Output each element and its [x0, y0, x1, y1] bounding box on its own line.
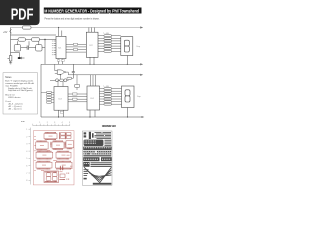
- DISP1 digit 8: [124, 40, 129, 46]
- resistor R1 top rail: [23, 26, 32, 29]
- IC1 top pins: [59, 28, 62, 37]
- layout left edge marks: [34, 136, 72, 180]
- pcb corner text marks: [84, 169, 112, 184]
- layout side dots: [59, 166, 65, 180]
- wire osc row: [11, 39, 57, 41]
- svg-text:7 x 680: 7 x 680: [103, 86, 109, 88]
- svg-text:3: 3: [54, 122, 55, 124]
- pcb pads white: [84, 140, 110, 164]
- op IC4 decoder2: [87, 86, 100, 110]
- DISP1 bottom wire: [126, 56, 128, 65]
- svg-text:2: 2: [47, 122, 48, 124]
- IC4 right pins: [100, 89, 105, 105]
- svg-text:Press the button and a two dig: Press the button and a two digit random …: [45, 17, 100, 20]
- gate output wire: [66, 72, 69, 75]
- IC1 bottom labels: [57, 60, 60, 62]
- layout side box R: [60, 174, 65, 178]
- rail mid2 arrow: [140, 74, 143, 76]
- IC1 right pin wires to IC2: [66, 44, 86, 52]
- pcb band mid: [83, 147, 111, 151]
- IC3 bottom pins: [59, 110, 64, 117]
- IC2 bottom pins: [90, 57, 94, 64]
- layout IC2: [36, 141, 48, 151]
- component box IC osc: [36, 45, 42, 51]
- wire rail2 to R6: [59, 75, 61, 79]
- gate bubble: [64, 71, 65, 72]
- pcb trace row a: [95, 131, 102, 134]
- node DISP2 gnd: [127, 116, 128, 117]
- ruler horizontal: [33, 124, 70, 126]
- layout display module: [44, 171, 59, 183]
- ladder2 wires: [112, 89, 122, 105]
- node junction A: [44, 39, 45, 40]
- rail mid 2: [68, 74, 140, 76]
- PDF badge: [0, 0, 40, 25]
- svg-text:7 x 680: 7 x 680: [103, 33, 109, 35]
- svg-text:4: 4: [26, 151, 27, 153]
- resistor R3: [32, 38, 40, 41]
- op IC1 counter: [56, 36, 66, 58]
- wire vert cap: [18, 41, 39, 45]
- capacitor C2: [27, 46, 29, 50]
- Q wires to IC3: [58, 80, 63, 86]
- layout IC1: [44, 132, 57, 140]
- svg-text:5: 5: [26, 158, 27, 160]
- pcb stripes row f: [83, 162, 89, 167]
- layout ref labels: [38, 148, 70, 173]
- display DISP1: [121, 37, 133, 56]
- transistor Q1: [56, 79, 59, 82]
- IC1 pin labels: [52, 41, 53, 55]
- layout box D: [66, 141, 74, 149]
- svg-text:A3 - (Qwire): A3 - (Qwire): [9, 108, 22, 111]
- resistor R6: [60, 79, 64, 81]
- wire transistor row: [50, 79, 69, 81]
- op IC3 counter2: [54, 87, 68, 111]
- node rail1 junctions: [89, 64, 90, 65]
- node R6 top: [60, 74, 61, 75]
- svg-text:2: 2: [26, 136, 27, 138]
- svg-text:If not:: If not:: [5, 100, 11, 103]
- svg-text:mm: mm: [21, 121, 25, 123]
- ruler vertical numbers: [26, 129, 27, 182]
- pcb panel border: [82, 131, 112, 185]
- wire osc lower row: [21, 47, 45, 49]
- node IC4 gnd: [89, 116, 90, 117]
- rail mid 1: [41, 63, 141, 65]
- pin number boxes row1: [74, 43, 78, 45]
- rail mid1 arrow: [140, 63, 143, 65]
- left rail long: [40, 64, 42, 117]
- capacitor C3 plate: [21, 57, 23, 59]
- pcb fan traces: [84, 167, 111, 182]
- transistor Q2: [64, 79, 67, 82]
- layout panel border: [33, 131, 74, 185]
- IC2 right pins: [98, 36, 104, 52]
- IC3 left pin ticks: [41, 92, 54, 102]
- notes text: [5, 80, 34, 111]
- svg-text:1: 1: [26, 129, 27, 131]
- IC3 left pin boxes: [47, 91, 52, 103]
- gate input wires: [55, 64, 57, 73]
- title bar: [44, 8, 142, 14]
- layout mid pin dots: [50, 142, 65, 148]
- layout IC3: [52, 141, 64, 150]
- notes box: [3, 73, 38, 114]
- layout topright pin dots: [59, 132, 66, 139]
- capacitor C4: [72, 64, 75, 78]
- R4 wire: [72, 77, 74, 79]
- top supply rail: [11, 27, 141, 29]
- pcb bars row d: [83, 151, 95, 153]
- svg-text:7: 7: [26, 173, 27, 175]
- pcb ic blob: [84, 140, 104, 146]
- R5 wire: [76, 75, 78, 90]
- ruler vertical: [29, 128, 31, 185]
- capacitor C3 electrolytic: [18, 57, 21, 59]
- ruler horizontal numbers: [39, 122, 70, 124]
- wire vert junction: [44, 40, 46, 65]
- layout IC5: [56, 151, 71, 160]
- layout IC4: [36, 151, 53, 160]
- svg-text:6: 6: [26, 166, 27, 168]
- node IC3 gnd: [58, 116, 59, 117]
- pcb pad block left: [84, 132, 87, 134]
- svg-text:4: 4: [62, 122, 63, 124]
- svg-text:M NUMBER GENERATOR - Designed: M NUMBER GENERATOR - Designed by Phil To…: [44, 9, 139, 14]
- svg-text:UNDERSIDE VIEW: UNDERSIDE VIEW: [102, 124, 116, 128]
- svg-text:5: 5: [69, 122, 70, 124]
- op IC2 decoder: [86, 32, 98, 57]
- svg-text:3: 3: [26, 144, 27, 146]
- svg-text:Displ side to IC Brd 8 (green): Displ side to IC Brd 8 (green).: [8, 89, 33, 92]
- svg-text:Disp: Disp: [137, 46, 141, 48]
- wire button branch: [11, 52, 25, 58]
- ground rail arrow: [142, 116, 145, 118]
- IC4 top pins: [91, 75, 96, 86]
- svg-text:Disp: Disp: [137, 96, 141, 98]
- ground symbol: [9, 61, 12, 64]
- svg-text:Notes: Notes: [5, 76, 12, 79]
- supply break symbol: [10, 29, 12, 33]
- DISP2 digit 8: [125, 90, 130, 96]
- resistor R4: [67, 77, 72, 79]
- svg-text:8: 8: [26, 180, 27, 182]
- IC3 bottom box: [60, 111, 63, 113]
- svg-text:PDF: PDF: [11, 7, 34, 24]
- IC1 left pins: [54, 41, 56, 55]
- resistor R5: [75, 84, 80, 87]
- IC1 bottom pins: [59, 59, 63, 65]
- IC1 top pin node: [58, 27, 59, 28]
- svg-text:LINLD device: LINLD device: [8, 97, 21, 99]
- pin boxes row2: [73, 93, 78, 95]
- pcb band row e: [83, 157, 99, 161]
- component box C1: [14, 45, 21, 51]
- preset wiper: [8, 57, 10, 59]
- resistor ladder 1: [104, 35, 112, 53]
- preset VR1: [9, 56, 12, 61]
- IC3 right wires to IC4: [68, 94, 87, 102]
- display DISP2: [122, 86, 135, 108]
- svg-text:+9V: +9V: [3, 31, 8, 34]
- IC2 top pins: [89, 28, 95, 33]
- layout IC6: [36, 161, 52, 170]
- layout small boxes topright: [61, 133, 72, 139]
- wire y35: [11, 34, 57, 36]
- gate IC2a: [57, 70, 64, 74]
- IC4 bottom pins: [90, 110, 95, 117]
- left rail: [10, 28, 12, 56]
- layout IC7: [56, 161, 73, 170]
- node DISP1 gnd: [127, 64, 128, 65]
- DISP2 bottom wire: [127, 108, 129, 118]
- resistor R2: [18, 38, 26, 41]
- ground rail: [41, 116, 142, 118]
- resistor ladder 2: [104, 88, 112, 106]
- ladder1 wires to display: [112, 36, 121, 52]
- supply arrow right: [140, 26, 143, 28]
- svg-text:1: 1: [39, 122, 40, 124]
